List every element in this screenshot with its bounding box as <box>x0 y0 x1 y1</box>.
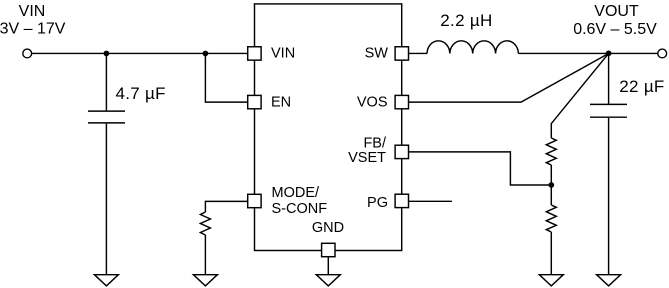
wire R3 to ground <box>550 232 552 275</box>
resistor R1 (MODE/S-CONF) <box>200 212 210 235</box>
wire R1 to ground <box>204 235 206 275</box>
ground (GND pin) <box>316 275 340 286</box>
svg-text:VIN: VIN <box>271 46 295 62</box>
pin PG <box>395 194 408 207</box>
wire node FB to R3 <box>550 185 552 205</box>
wire VIN input rail <box>32 52 248 54</box>
terminal VIN input <box>23 49 32 58</box>
svg-text:VIN: VIN <box>19 3 46 20</box>
svg-text:22 µF: 22 µF <box>619 77 664 96</box>
svg-text:VOS: VOS <box>357 95 388 111</box>
pin MODE/S-CONF <box>248 194 261 207</box>
pin FB/VSET <box>395 145 408 158</box>
node VOUT <box>606 50 612 56</box>
wire C1 to ground <box>105 124 107 275</box>
wire VOUT to R2 <box>551 53 608 138</box>
wire MODE branch <box>205 201 247 212</box>
wire SW to inductor <box>409 52 428 54</box>
node input/C1 junction <box>104 51 110 57</box>
svg-text:VSET: VSET <box>348 150 386 166</box>
wire PG stub <box>409 200 452 202</box>
ground (R1) <box>193 275 217 286</box>
resistor R3 (lower feedback) <box>546 205 556 232</box>
wire inductor to VOUT terminal <box>518 52 657 54</box>
inductor L1 2.2uH <box>427 41 518 54</box>
terminal VOUT output <box>658 49 667 58</box>
wire EN branch <box>205 53 247 102</box>
svg-text:4.7 µF: 4.7 µF <box>116 84 166 103</box>
svg-text:VOUT: VOUT <box>594 3 639 20</box>
pin VIN <box>248 47 261 60</box>
wire VOUT to C2 <box>608 53 610 103</box>
wire FB/VSET branch <box>409 152 552 185</box>
wire C2 to ground <box>608 118 610 275</box>
pin VOS <box>395 95 408 108</box>
svg-text:3V – 17V: 3V – 17V <box>0 21 66 38</box>
svg-text:EN: EN <box>271 95 291 111</box>
pin SW <box>395 47 408 60</box>
wire VOS branch <box>409 53 609 102</box>
svg-text:2.2 µH: 2.2 µH <box>440 11 492 30</box>
wire GND pin to ground <box>327 257 329 275</box>
pin GND <box>322 243 335 256</box>
svg-text:SW: SW <box>365 46 389 62</box>
svg-text:MODE/: MODE/ <box>272 185 321 201</box>
wire C1 branch <box>105 53 107 110</box>
ground (C2) <box>597 275 621 286</box>
wire R2 to node FB <box>550 165 552 185</box>
svg-text:S-CONF: S-CONF <box>272 201 328 217</box>
node EN junction <box>203 51 209 57</box>
node FB divider junction <box>548 182 554 188</box>
capacitor C1 4.7uF <box>88 111 125 123</box>
svg-text:PG: PG <box>367 195 388 211</box>
resistor R2 (upper feedback) <box>546 138 556 165</box>
ground (R3) <box>539 275 563 286</box>
ground (C1) <box>94 275 118 286</box>
pin EN <box>248 95 261 108</box>
capacitor C2 22uF <box>590 104 627 117</box>
IC U1 body <box>255 4 402 251</box>
svg-text:GND: GND <box>312 220 344 236</box>
svg-text:0.6V – 5.5V: 0.6V – 5.5V <box>573 21 657 38</box>
